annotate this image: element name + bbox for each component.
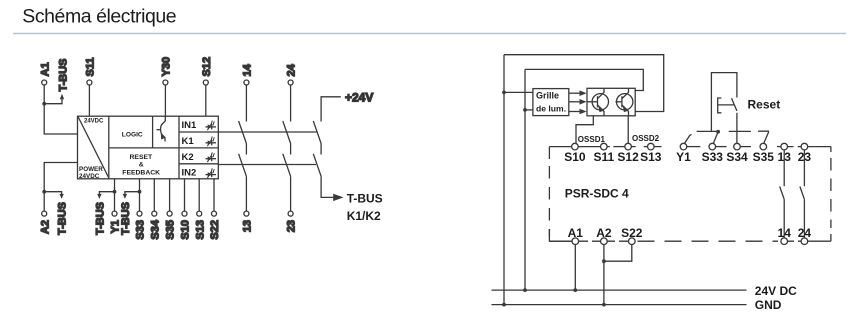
- node A1 on 24V rail: [573, 288, 577, 292]
- T-BUS branch arrow (bottom left): [44, 192, 68, 235]
- wire 24V feed vertical: [524, 69, 526, 290]
- svg-text:FEEDBACK: FEEDBACK: [122, 170, 160, 177]
- terminal A2 (right diagram): [596, 226, 612, 245]
- contact 13-14: [780, 150, 785, 238]
- signal arrow 1: [569, 90, 587, 96]
- svg-text:RESET: RESET: [130, 154, 154, 161]
- node GND feed on GND rail: [502, 303, 506, 307]
- terminal S13 (left diagram): [194, 179, 206, 240]
- svg-text:&: &: [139, 162, 144, 169]
- terminal A2: [39, 211, 51, 234]
- svg-text:T-BUS: T-BUS: [120, 202, 132, 235]
- LED D3: [206, 152, 217, 162]
- relay block U1 outline: [78, 116, 219, 179]
- wire stub S33-S34: [716, 146, 727, 148]
- svg-text:T-BUS: T-BUS: [57, 59, 69, 92]
- wire stub right of Y1: [687, 146, 701, 148]
- svg-text:A1: A1: [568, 226, 584, 240]
- wire stub S34-S35: [740, 146, 751, 148]
- svg-text:A2: A2: [596, 226, 612, 240]
- svg-text:S12: S12: [201, 57, 213, 77]
- transistor Q1 in logic cell: [157, 116, 166, 141]
- node junction on S33 wire: [138, 190, 142, 194]
- signal arrow 3: [569, 109, 587, 115]
- wire OSSD1 to S10: [576, 116, 593, 144]
- wire stubs 14-24: [788, 240, 802, 242]
- reset pushbutton blade: [732, 98, 737, 111]
- svg-text:14: 14: [778, 226, 792, 240]
- wire 24 to contact: [290, 85, 292, 122]
- terminal S11: [593, 143, 614, 164]
- terminal A1: [39, 62, 51, 85]
- node S22/A2 junction: [602, 259, 606, 263]
- power section divider: [108, 116, 110, 179]
- svg-text:S35: S35: [165, 220, 177, 240]
- label POWER 24VDC: [79, 166, 103, 180]
- svg-text:Y1: Y1: [676, 150, 691, 164]
- terminal Y1: [676, 143, 691, 164]
- separator rule under title: [13, 33, 846, 35]
- svg-text:POWER: POWER: [79, 166, 103, 173]
- svg-text:13: 13: [242, 220, 254, 232]
- node blade S33 on crossbar: [716, 130, 720, 134]
- wire Y30 to block: [164, 85, 166, 116]
- wire S11 to block: [88, 85, 90, 116]
- T-BUS branch arrow (from Y1): [95, 192, 115, 235]
- terminal S11: [85, 58, 97, 85]
- contact K2a (24-23): [283, 121, 291, 211]
- stub right of S12: [631, 146, 635, 148]
- wire GND feed vertical: [503, 55, 505, 305]
- wire stubs 13-23: [788, 146, 802, 148]
- svg-text:S10: S10: [180, 220, 192, 240]
- row divider K2/IN2: [179, 163, 218, 165]
- dashed enclosure : bottom-left corner: [549, 229, 571, 241]
- signal arrow 2: [569, 99, 587, 105]
- 24V DC rail: [492, 289, 747, 291]
- bottom row: 24 to right corner: [808, 240, 831, 242]
- terminal 14: [242, 63, 254, 85]
- terminal S13: [640, 143, 662, 164]
- power section diagonal: [78, 117, 108, 178]
- wire S12 to block: [205, 85, 207, 116]
- svg-text:OSSD1: OSSD1: [578, 135, 606, 144]
- svg-text:IN1: IN1: [182, 120, 198, 131]
- LED D4: [206, 168, 217, 178]
- svg-text:T-BUS: T-BUS: [95, 202, 107, 235]
- terminal 13 (left diagram): [242, 211, 254, 232]
- svg-text:Reset: Reset: [748, 98, 781, 112]
- fixed-contact bar Y1/S33: [697, 130, 718, 132]
- logic cell divider: [152, 116, 154, 148]
- divider under logic row: [109, 147, 179, 149]
- wire S22 to A2: [604, 245, 632, 262]
- switch blade at S33: [713, 132, 718, 144]
- svg-text:S33: S33: [135, 220, 147, 240]
- svg-text:24VDC: 24VDC: [79, 173, 100, 180]
- contact K3a (+24V to T-BUS): [313, 121, 321, 176]
- svg-text:S35: S35: [753, 150, 775, 164]
- terminal S35: [753, 143, 775, 164]
- reset loop wire: [711, 73, 737, 132]
- wire 14 to contact: [245, 85, 247, 122]
- svg-text:24V DC: 24V DC: [755, 284, 797, 298]
- OSSD output box: [587, 88, 635, 116]
- bottom row: corner to A1: [549, 240, 572, 242]
- svg-text:A1: A1: [39, 62, 51, 76]
- I/O column divider: [178, 116, 180, 179]
- wire second loop to transistor box: [525, 69, 643, 90]
- wire A2 to GND rail: [603, 245, 605, 305]
- stub right of S11: [607, 146, 610, 148]
- terminal 24: [286, 63, 298, 85]
- terminal S33 (left diagram): [135, 179, 147, 240]
- stub left of 13: [777, 146, 781, 148]
- GND rail: [492, 304, 747, 306]
- terminal S22 (left diagram): [209, 179, 221, 240]
- row divider K1/K2: [179, 147, 218, 149]
- node junction on A1 wire: [42, 102, 46, 106]
- svg-text:T-BUS: T-BUS: [57, 202, 69, 235]
- svg-text:Y30: Y30: [161, 57, 173, 77]
- svg-text:24: 24: [286, 63, 298, 76]
- terminal 14 (right diagram): [778, 226, 792, 245]
- svg-text:S11: S11: [85, 58, 97, 77]
- svg-text:Grille: Grille: [536, 91, 559, 101]
- terminal A1 (right diagram): [568, 226, 584, 245]
- terminal Y1 (left diagram): [110, 179, 122, 234]
- terminal 13: [778, 143, 792, 164]
- terminal 24 (right diagram): [798, 226, 812, 245]
- node A2 on GND rail: [602, 303, 606, 307]
- svg-text:A2: A2: [39, 220, 51, 234]
- transistor T1 (OSSD1, pnp): [587, 88, 609, 116]
- svg-text:S34: S34: [726, 150, 748, 164]
- label RESET & FEEDBACK: [122, 154, 160, 177]
- T-BUS branch arrow (top): [44, 59, 69, 104]
- wire rail from IN1/K1 row: [218, 131, 316, 133]
- switch blade at Y1: [685, 134, 692, 143]
- svg-text:S13: S13: [194, 220, 206, 240]
- row divider IN1/K1: [179, 131, 218, 133]
- terminal S34 (left diagram): [149, 179, 161, 240]
- wire to light curtain top: [504, 91, 533, 93]
- label T-BUS K1/K2: [347, 192, 383, 223]
- dashed enclosure : right edge: [830, 147, 832, 152]
- wire stubs A2-S22: [607, 240, 628, 242]
- node on GND feed: [502, 91, 506, 95]
- node on 24V feed: [523, 108, 527, 112]
- wire A2 to block: [44, 163, 77, 212]
- svg-text:OSSD2: OSSD2: [632, 134, 660, 143]
- svg-text:S11: S11: [593, 150, 614, 164]
- svg-text:T-BUS: T-BUS: [347, 192, 383, 206]
- fixed-contact bar S34: [729, 130, 751, 132]
- wire to T-BUS K1/K2 arrow: [321, 176, 334, 197]
- node 24V feed on 24V rail: [523, 288, 527, 292]
- svg-text:S33: S33: [702, 150, 724, 164]
- wire A1 to 24V rail: [574, 245, 576, 291]
- stub right of S13: [654, 146, 661, 148]
- terminal S10: [564, 143, 586, 164]
- switch blade at S35: [758, 131, 769, 143]
- reset pushbutton actuator bracket: [718, 98, 722, 113]
- svg-text:S12: S12: [617, 150, 639, 164]
- wire to light curtain bottom: [525, 109, 533, 111]
- terminal S35 (left diagram): [165, 179, 177, 240]
- svg-text:K1/K2: K1/K2: [347, 209, 381, 223]
- terminal S33: [702, 143, 724, 164]
- terminal Y30: [161, 57, 173, 85]
- svg-text:S22: S22: [209, 220, 221, 240]
- svg-text:Schéma électrique: Schéma électrique: [22, 5, 176, 27]
- wire S10-S11: [578, 146, 600, 148]
- svg-text:S34: S34: [149, 219, 161, 239]
- reset pushbutton rod: [718, 104, 735, 106]
- terminal S10 (left diagram): [180, 179, 192, 240]
- LED D1: [206, 121, 217, 131]
- stub left of S12: [613, 146, 624, 148]
- svg-text:S22: S22: [621, 226, 643, 240]
- svg-text:K2: K2: [182, 152, 194, 163]
- dashed bottom edge S22 to 14: [638, 240, 779, 242]
- terminal S12: [617, 143, 639, 164]
- contact K1a (14-13): [239, 121, 247, 211]
- node junction on Y1 wire: [113, 190, 117, 194]
- terminal S12: [201, 57, 213, 85]
- dashed enclosure PSR-SDC 4 : left edge: [548, 147, 550, 159]
- wire 23 to right corner: [808, 146, 831, 148]
- stub left of S13: [644, 146, 648, 148]
- wire A1 to block: [44, 85, 77, 134]
- wire top loop to transistor box: [504, 55, 664, 112]
- LED D2: [206, 137, 217, 147]
- svg-text:LOGIC: LOGIC: [122, 131, 143, 138]
- +24V feed corner: [321, 91, 373, 122]
- contact 23-24: [800, 150, 805, 238]
- light curtain box (Grille de lum.): [533, 89, 569, 116]
- svg-text:S10: S10: [564, 150, 586, 164]
- svg-text:24: 24: [798, 226, 812, 240]
- svg-text:IN2: IN2: [182, 168, 197, 179]
- arrowhead T-BUS K1/K2: [333, 194, 343, 201]
- transistor T2 (OSSD2, pnp): [615, 88, 633, 116]
- svg-text:24VDC: 24VDC: [84, 119, 104, 125]
- svg-text:+24V: +24V: [345, 91, 373, 105]
- terminal 23 (left diagram): [286, 211, 298, 232]
- svg-text:S13: S13: [640, 150, 662, 164]
- terminal S34: [726, 143, 748, 164]
- svg-text:PSR-SDC 4: PSR-SDC 4: [565, 187, 629, 201]
- svg-text:GND: GND: [755, 298, 782, 312]
- wire rail from K2/IN2 row: [218, 164, 316, 166]
- svg-text:de lum.: de lum.: [536, 104, 566, 114]
- svg-text:14: 14: [242, 63, 254, 76]
- wire stubs A1-A2: [579, 240, 601, 242]
- top row link wire left corner to S10: [549, 146, 571, 148]
- wire OSSD2 to S12: [627, 116, 629, 144]
- terminal 23: [798, 143, 812, 164]
- svg-text:K1: K1: [182, 136, 195, 147]
- node junction on A2 wire: [42, 190, 46, 194]
- T-BUS branch arrow (from S33): [120, 192, 140, 235]
- terminal S22 (right diagram): [621, 226, 643, 245]
- svg-text:23: 23: [286, 220, 298, 232]
- wire reset to S34: [736, 113, 738, 144]
